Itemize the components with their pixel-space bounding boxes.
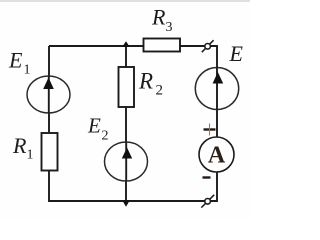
wire top left horizontal [49,45,143,47]
svg-text:1: 1 [24,63,31,78]
svg-text:R: R [12,133,27,158]
wire bottom right terminal to corner [211,173,217,202]
label E2 [87,113,109,143]
wire middle branch top [125,46,127,67]
wire E source to ammeter [216,110,218,138]
svg-text:A: A [208,143,226,169]
label R2 [138,69,163,99]
svg-text:2: 2 [156,83,164,99]
svg-text:1: 1 [27,148,34,163]
ammeter minus sign [203,176,211,178]
junction node top [122,41,130,47]
label R3 [151,4,173,35]
wire top right horizontal [180,45,205,47]
junction node bottom [122,200,130,207]
svg-text:E: E [229,41,244,66]
wire left branch top [48,46,50,77]
svg-text:2: 2 [102,129,109,144]
svg-text:R: R [151,4,166,29]
wire through E [216,68,218,111]
resistor R1 [42,133,58,171]
source E circle [195,68,238,110]
ammeter A [199,137,234,172]
wire R2 to E2 [125,107,127,143]
arrow of E [213,72,224,84]
wire R1 to bottom [49,171,205,202]
arrow of E1 [43,78,54,90]
wire from top terminal to right corner [211,46,217,68]
source E1 circle [27,76,70,113]
wire E1 to R1 [48,113,50,134]
label E1 [8,48,31,78]
label R1 [12,133,34,163]
wire E2 to bottom [125,181,127,202]
resistor R2 [119,67,135,107]
svg-text:E: E [8,48,23,73]
terminal bottom (circle with slash) [201,195,214,208]
wire through E1 [48,76,50,113]
terminal top (circle with slash) [202,40,214,52]
scan artifact top edge line [0,0,250,2]
arrow of E2 [122,148,132,159]
source E2 circle [105,142,148,181]
svg-text:3: 3 [166,20,173,35]
svg-text:E: E [87,113,101,137]
svg-text:R: R [138,69,153,94]
resistor R3 [144,39,181,52]
wire through E2 [125,142,127,181]
ammeter plus sign [204,124,216,136]
